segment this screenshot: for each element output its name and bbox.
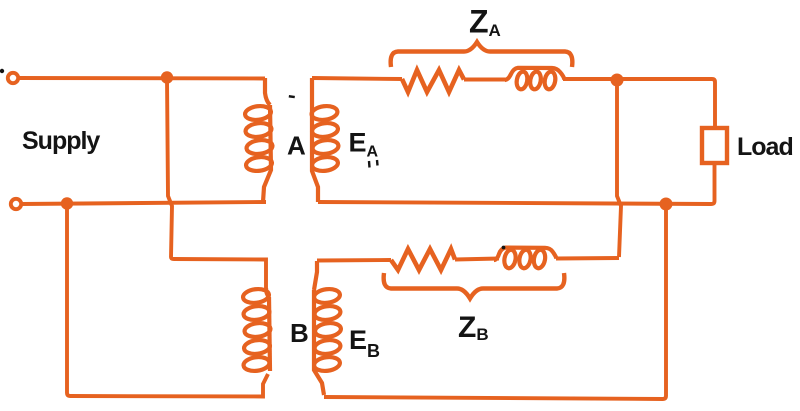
wire resistor to inductor (Z_A) [464, 78, 506, 82]
resistor in Z_A [402, 70, 464, 92]
transformer A primary coil P_A [244, 78, 273, 202]
wire inductor to load corner [563, 77, 712, 81]
wire A secondary top to resistor [312, 78, 402, 79]
wire B secondary top to resistor [317, 258, 391, 262]
load resistor box [702, 128, 727, 163]
wire from load-bottom junction down to B secondary bottom [324, 204, 666, 399]
wire vertical from top junction to B primary (jog over crossing) [167, 78, 266, 288]
scan dash near A coil [289, 95, 295, 98]
brace for Z_A [391, 42, 573, 67]
terminal supply top [8, 73, 18, 83]
node junction top-left [161, 71, 173, 83]
wire vertical from Z junction down to Z_B output (jog over crossing) [617, 80, 621, 257]
wire supply bottom [21, 202, 266, 204]
node junction Z outputs [611, 74, 624, 87]
transformer B secondary coil S_B [313, 261, 341, 395]
inductor in Z_B [494, 248, 557, 270]
resistor in Z_B [391, 249, 455, 270]
node junction load bottom [660, 198, 673, 211]
wire supply top [18, 76, 265, 80]
transformer B primary coil P_B [242, 288, 271, 373]
scan speck near top terminal [0, 69, 4, 73]
brace for Z_B [384, 273, 565, 299]
svg-text:EB: EB [349, 325, 380, 361]
inductor in Z_A [505, 68, 565, 90]
wire inductor to vertical (Z_B output) [556, 256, 619, 260]
svg-text:Load: Load [737, 133, 793, 161]
svg-text:EA: EA [349, 128, 379, 161]
svg-text:B: B [290, 318, 309, 348]
wire resistor to inductor (Z_B) [455, 259, 499, 260]
scan marks under E_A [369, 160, 378, 168]
transformer A secondary coil S_A [311, 78, 339, 202]
scan dot above Z_B inductor [502, 246, 506, 250]
svg-text:ZA: ZA [469, 4, 501, 41]
wire load bottom drop [318, 163, 715, 204]
wire bottom-left down and across to B primary bottom [67, 204, 268, 397]
svg-text:ZB: ZB [458, 311, 489, 344]
label Supply [22, 127, 99, 156]
node junction bottom-left [61, 197, 73, 209]
wire load top drop [712, 79, 715, 128]
terminal supply bottom [11, 199, 21, 209]
svg-text:A: A [287, 131, 306, 161]
